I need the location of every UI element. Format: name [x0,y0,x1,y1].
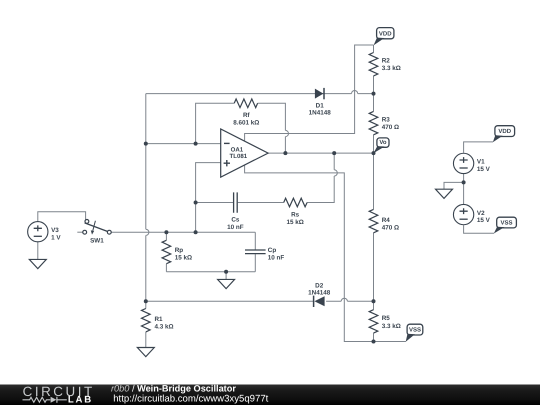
svg-text:1 V: 1 V [51,234,61,241]
svg-text:Vo: Vo [379,139,387,146]
svg-text:10 nF: 10 nF [268,255,285,262]
svg-text:D2: D2 [315,283,324,290]
svg-text:D1: D1 [316,102,325,109]
svg-text:V3: V3 [51,227,59,234]
svg-text:TL081: TL081 [230,153,248,160]
svg-text:r0b0 / Wein-Bridge Oscillator: r0b0 / Wein-Bridge Oscillator [111,383,236,393]
svg-text:V1: V1 [477,159,485,166]
svg-text:R5: R5 [382,315,391,322]
svg-text:VSS: VSS [501,220,513,227]
svg-text:3.3 kΩ: 3.3 kΩ [382,323,401,330]
svg-text:4.3 kΩ: 4.3 kΩ [155,324,174,331]
svg-text:15 kΩ: 15 kΩ [175,255,192,262]
svg-text:470 Ω: 470 Ω [382,224,399,231]
svg-text:R1: R1 [155,316,164,323]
svg-text:LAB: LAB [68,395,93,405]
svg-text:Rf: Rf [243,112,251,119]
svg-text:Rp: Rp [175,247,184,254]
svg-text:15 kΩ: 15 kΩ [286,219,303,226]
svg-text:10 nF: 10 nF [227,224,244,231]
svg-text:V2: V2 [477,210,485,217]
svg-text:R2: R2 [382,58,391,65]
svg-text:SW1: SW1 [90,238,104,245]
svg-text:Cp: Cp [268,247,277,254]
svg-text:470 Ω: 470 Ω [382,124,399,131]
svg-text:R4: R4 [382,217,391,224]
svg-text:http://circuitlab.com/cwww3xy5: http://circuitlab.com/cwww3xy5q977t [113,393,268,404]
svg-text:VDD: VDD [498,128,511,135]
svg-text:1N4148: 1N4148 [308,290,331,297]
svg-text:1N4148: 1N4148 [309,110,332,117]
svg-text:Rs: Rs [291,211,300,218]
svg-text:VSS: VSS [409,327,421,334]
svg-text:15 V: 15 V [477,166,491,173]
svg-text:R3: R3 [382,116,391,123]
svg-text:3.3 kΩ: 3.3 kΩ [382,65,401,72]
svg-text:Cs: Cs [231,216,240,223]
svg-text:VDD: VDD [379,31,392,38]
svg-text:8.601 kΩ: 8.601 kΩ [233,120,259,127]
svg-text:15 V: 15 V [477,217,491,224]
